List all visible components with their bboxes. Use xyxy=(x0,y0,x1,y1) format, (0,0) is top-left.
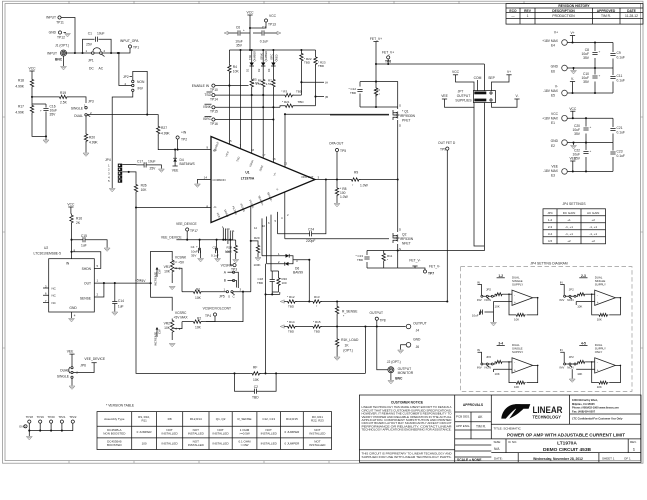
wire OPA OUT xyxy=(315,179,350,181)
svg-text:0 JUMPER: 0 JUMPER xyxy=(284,442,300,446)
svg-text:E2: E2 xyxy=(551,144,555,148)
svg-text:SINGLE: SINGLE xyxy=(71,107,84,111)
wire D6 pin3 to right column xyxy=(308,260,310,302)
svg-text:TP5: TP5 xyxy=(340,149,346,153)
svg-text:4-5: 4-5 xyxy=(581,342,586,346)
vee flag xyxy=(173,165,178,167)
svg-text:Q1, Q2: Q1, Q2 xyxy=(216,417,226,421)
svg-text:AC GAIN: AC GAIN xyxy=(587,211,599,215)
svg-text:C4: C4 xyxy=(191,245,195,249)
svg-text:E6: E6 xyxy=(551,70,555,74)
svg-text:10K: 10K xyxy=(141,188,148,192)
svg-text:TBD: TBD xyxy=(357,258,364,262)
svg-text:GND: GND xyxy=(69,306,77,310)
svg-text:TP2: TP2 xyxy=(181,138,187,142)
svg-text:CW: CW xyxy=(158,269,162,274)
svg-text:BAV99: BAV99 xyxy=(293,271,303,275)
svg-text:TBD: TBD xyxy=(314,330,321,334)
svg-text:TITLE: SCHEMATIC: TITLE: SCHEMATIC xyxy=(494,427,522,431)
svg-text:16: 16 xyxy=(273,157,277,161)
svg-text:-1, +1: -1, +1 xyxy=(589,232,597,236)
svg-text:FET_V+: FET_V+ xyxy=(370,37,382,41)
svg-text:VCSRC: VCSRC xyxy=(175,311,187,315)
Linear Technology logo xyxy=(501,404,562,419)
svg-text:100: 100 xyxy=(142,442,147,446)
svg-text:17: 17 xyxy=(262,153,266,157)
svg-text:C24: C24 xyxy=(308,228,314,232)
svg-text:Wednesday, November 28, 2012: Wednesday, November 28, 2012 xyxy=(533,457,583,461)
svg-text:COMMON: COMMON xyxy=(213,178,226,182)
svg-text:V+: V+ xyxy=(507,70,511,74)
svg-text:TECHNOLOGY APPLICATIONS ENGINE: TECHNOLOGY APPLICATIONS ENGINEERING FOR … xyxy=(362,429,452,432)
approvals box xyxy=(490,395,492,439)
mini circuit 2-3 xyxy=(560,274,622,322)
svg-text:VR1: VR1 xyxy=(164,265,171,269)
svg-text:+: + xyxy=(196,245,198,249)
svg-text:OPA OUT: OPA OUT xyxy=(301,175,314,179)
svg-text:-1, +1: -1, +1 xyxy=(565,225,573,229)
svg-text:* R21: * R21 xyxy=(282,100,290,104)
svg-text:DUAL: DUAL xyxy=(74,114,83,118)
svg-text:S: S xyxy=(228,295,230,299)
net arrow xyxy=(280,300,284,303)
svg-text:(A: (A xyxy=(325,81,328,85)
ground xyxy=(83,153,89,156)
svg-text:35V: 35V xyxy=(236,44,243,48)
ground xyxy=(571,146,577,149)
svg-text:JP4 SETTINGS: JP4 SETTINGS xyxy=(562,202,586,206)
svg-text:V+: V+ xyxy=(570,31,574,35)
svg-text:1uF: 1uF xyxy=(81,244,87,248)
LED D3 xyxy=(272,50,274,63)
svg-text:4.99K: 4.99K xyxy=(15,111,24,115)
net arrow left xyxy=(224,31,228,34)
svg-text:JP4: JP4 xyxy=(547,211,553,215)
svg-text:TP21: TP21 xyxy=(58,415,66,419)
svg-text:BNC: BNC xyxy=(395,376,403,380)
svg-text:10K: 10K xyxy=(253,378,260,382)
svg-text:-18V MAX: -18V MAX xyxy=(543,89,559,93)
svg-text:DC453B-BBOOSTED: DC453B-BBOOSTED xyxy=(107,440,123,447)
svg-text:C17: C17 xyxy=(137,160,143,164)
svg-text:JP3: JP3 xyxy=(88,100,94,104)
svg-text:BNC: BNC xyxy=(55,58,63,62)
svg-text:TP16: TP16 xyxy=(210,122,218,126)
svg-text:U2: U2 xyxy=(44,246,48,250)
svg-text:* R12: * R12 xyxy=(287,295,295,299)
svg-text:1: 1 xyxy=(527,14,529,18)
svg-text:NFET: NFET xyxy=(402,242,411,246)
svg-text:OUT: OUT xyxy=(84,282,91,286)
svg-text:R_SENSE: R_SENSE xyxy=(342,310,358,314)
svg-text:35V: 35V xyxy=(574,132,581,136)
svg-text:ENABLE IN: ENABLE IN xyxy=(192,84,210,88)
net flag (IAMP A xyxy=(301,81,324,83)
svg-text:OUTPUT: OUTPUT xyxy=(413,322,427,326)
svg-text:N/A: N/A xyxy=(494,447,500,451)
svg-text:-1, +1: -1, +1 xyxy=(589,225,597,229)
svg-text:ECO: ECO xyxy=(509,9,517,13)
svg-text:4.99K: 4.99K xyxy=(89,141,98,145)
svg-text:AMBER: AMBER xyxy=(264,51,268,60)
svg-text:C2: C2 xyxy=(254,385,258,389)
net arrow right xyxy=(277,31,281,34)
svg-text:TP9: TP9 xyxy=(440,148,446,152)
svg-text:TBD: TBD xyxy=(318,64,325,68)
svg-text:VEE: VEE xyxy=(551,165,558,169)
svg-text:1uF: 1uF xyxy=(118,305,124,309)
svg-text:TP14: TP14 xyxy=(210,98,218,102)
svg-text:SUPPLY: SUPPLY xyxy=(512,350,523,354)
svg-text:POWER OP AMP WITH ADJUSTABLE C: POWER OP AMP WITH ADJUSTABLE CURRENT LIM… xyxy=(507,433,625,438)
svg-text:TSD: TSD xyxy=(248,55,252,60)
svg-text:VEE_DEVICE: VEE_DEVICE xyxy=(84,357,106,361)
pin names bottom (angled) xyxy=(216,187,280,218)
svg-text:-In: -In xyxy=(213,205,217,209)
svg-text:MONITOR: MONITOR xyxy=(398,371,414,375)
svg-text:C7: C7 xyxy=(262,26,266,30)
svg-text:OF 1: OF 1 xyxy=(624,457,631,461)
svg-text:VCC: VCC xyxy=(247,11,255,15)
svg-text:SHDN: SHDN xyxy=(82,267,92,271)
svg-text:R1K_LOAD: R1K_LOAD xyxy=(341,338,359,342)
svg-text:0 JUMPER: 0 JUMPER xyxy=(284,430,300,434)
svg-text:JP2: JP2 xyxy=(123,75,129,79)
svg-text:DC GAIN: DC GAIN xyxy=(563,211,576,215)
svg-text:D3: D3 xyxy=(267,68,271,72)
svg-text:+: + xyxy=(590,125,592,129)
svg-text:0= +5V: 0= +5V xyxy=(174,261,185,265)
svg-text:TBD: TBD xyxy=(304,61,311,65)
svg-text:INPUT: INPUT xyxy=(46,16,56,20)
svg-text:TP17: TP17 xyxy=(190,229,198,233)
svg-text:Assembly Type: Assembly Type xyxy=(104,417,125,421)
svg-text:REV.: REV. xyxy=(630,440,637,444)
svg-text:AMBER: AMBER xyxy=(253,51,257,60)
svg-text:JP1: JP1 xyxy=(88,59,94,63)
svg-text:* R15: * R15 xyxy=(313,320,321,324)
svg-text:R8: R8 xyxy=(168,417,172,421)
mini circuit 4-5 xyxy=(560,342,622,390)
svg-text:E4: E4 xyxy=(551,44,555,48)
svg-text:D2: D2 xyxy=(257,68,261,72)
svg-text:0.1uF: 0.1uF xyxy=(617,79,625,83)
svg-text:R4: R4 xyxy=(233,65,237,69)
svg-text:TP4: TP4 xyxy=(205,314,211,318)
svg-text:+5V: +5V xyxy=(140,279,147,283)
svg-text:0.1uF: 0.1uF xyxy=(617,154,625,158)
ground xyxy=(571,71,577,74)
svg-text:AC: AC xyxy=(99,67,104,71)
svg-text:TP12: TP12 xyxy=(57,36,65,40)
svg-text:1630 McCarthy Blvd.,: 1630 McCarthy Blvd., xyxy=(572,398,598,402)
svg-text:VCC: VCC xyxy=(67,203,75,207)
net arrow xyxy=(280,325,284,328)
svg-text:4.99K: 4.99K xyxy=(15,85,24,89)
svg-text:35V: 35V xyxy=(574,157,581,161)
svg-text:DATE:: DATE: xyxy=(494,457,503,461)
wire JP4 pins xyxy=(122,165,136,184)
svg-text:JP5: JP5 xyxy=(219,295,225,299)
svg-text:INV: INV xyxy=(138,87,144,91)
svg-text:TP20: TP20 xyxy=(48,415,56,419)
svg-text:R19: R19 xyxy=(60,91,66,95)
ground xyxy=(65,34,71,37)
svg-text:100K: 100K xyxy=(225,250,232,254)
svg-text:TP7: TP7 xyxy=(428,272,434,276)
svg-text:LTC Confidential-For Customer: LTC Confidential-For Customer Use Only xyxy=(572,417,623,421)
svg-text:1: 1 xyxy=(633,448,635,452)
LED D2 xyxy=(262,50,264,63)
svg-text:1 OHM>=0.5W: 1 OHM>=0.5W xyxy=(239,428,250,435)
svg-text:14: 14 xyxy=(204,176,208,180)
svg-text:J2 (OPT.): J2 (OPT.) xyxy=(387,360,401,364)
svg-text:SUPPLIED FOR USE WITH LINEAR T: SUPPLIED FOR USE WITH LINEAR TECHNOLOGY … xyxy=(362,456,452,459)
svg-text:JP4: JP4 xyxy=(105,158,111,162)
svg-text:10uF: 10uF xyxy=(148,160,156,164)
svg-text:0.1uF: 0.1uF xyxy=(260,40,268,44)
svg-text:11-28-12: 11-28-12 xyxy=(625,14,638,18)
svg-text:DC: DC xyxy=(89,67,94,71)
pin names inside (angled) xyxy=(212,141,277,177)
ground xyxy=(61,67,67,70)
svg-text:1.5K: 1.5K xyxy=(255,82,261,86)
svg-text:C6: C6 xyxy=(236,26,240,30)
wire NON bracket to R27 xyxy=(112,71,147,188)
net flag (IAMP B xyxy=(316,96,325,98)
wire FET_V+ rail to JP7 xyxy=(376,63,484,65)
svg-text:10: 10 xyxy=(262,224,266,228)
svg-text:R_SENSE: R_SENSE xyxy=(237,417,251,421)
version table xyxy=(97,404,332,450)
svg-text:VEE_DEVICE: VEE_DEVICE xyxy=(176,222,198,226)
svg-text:Fax: (408)434-0507: Fax: (408)434-0507 xyxy=(572,409,596,413)
svg-text:1-2: 1-2 xyxy=(498,274,503,278)
svg-text:ISINK: ISINK xyxy=(259,53,263,60)
svg-text:100: 100 xyxy=(282,281,287,285)
svg-text:TP1: TP1 xyxy=(133,46,139,50)
svg-text:R12,R14: R12,R14 xyxy=(190,417,202,421)
svg-text:R20: R20 xyxy=(89,136,95,140)
svg-text:APPROVED: APPROVED xyxy=(597,9,616,13)
svg-text:100K: 100K xyxy=(254,263,261,267)
svg-text:ONLY: ONLY xyxy=(595,350,603,354)
svg-text:SENSE: SENSE xyxy=(80,297,92,301)
svg-text:* VERSION TABLE: * VERSION TABLE xyxy=(106,404,135,408)
svg-text:10K: 10K xyxy=(164,269,171,273)
svg-text:20: 20 xyxy=(227,227,231,231)
test points TP18-TP22 xyxy=(19,415,77,440)
svg-text:LTC3010EMS8E-5: LTC3010EMS8E-5 xyxy=(34,252,62,256)
svg-text:(OPT.): (OPT.) xyxy=(343,349,353,353)
svg-text:OUTPUT: OUTPUT xyxy=(370,311,384,315)
svg-text:10K: 10K xyxy=(195,296,202,300)
svg-text:V+: V+ xyxy=(554,31,558,35)
svg-text:+: + xyxy=(590,149,592,153)
svg-text:R13: R13 xyxy=(314,295,320,299)
svg-text:10K: 10K xyxy=(195,326,202,330)
svg-text:TIM R.: TIM R. xyxy=(601,14,611,18)
svg-text:TP11: TP11 xyxy=(56,21,64,25)
svg-text:2.5K: 2.5K xyxy=(60,101,68,105)
svg-text:IRF9530N: IRF9530N xyxy=(400,114,416,118)
svg-text:JP6: JP6 xyxy=(80,364,86,368)
svg-text:11: 11 xyxy=(232,229,235,233)
wire xyxy=(567,36,613,69)
svg-text:SCALE = NONE: SCALE = NONE xyxy=(457,458,482,462)
svg-text:1-2: 1-2 xyxy=(548,218,553,222)
svg-text:IRF530N: IRF530N xyxy=(400,237,414,241)
svg-text:TIM R.: TIM R. xyxy=(476,425,486,429)
svg-text:SUPPLY: SUPPLY xyxy=(512,283,523,287)
svg-text:VEE_DEVICE: VEE_DEVICE xyxy=(161,235,183,239)
svg-text:TP15: TP15 xyxy=(210,110,218,114)
svg-text:0.1uF: 0.1uF xyxy=(617,56,625,60)
svg-text:LT1970A: LT1970A xyxy=(241,177,255,181)
svg-text:SUPPLY: SUPPLY xyxy=(595,283,606,287)
ground xyxy=(69,386,75,389)
svg-text:10K: 10K xyxy=(164,326,171,330)
ground xyxy=(26,437,32,440)
svg-text:15: 15 xyxy=(229,139,233,143)
svg-text:U1: U1 xyxy=(245,171,249,175)
svg-text:SUPPLIES: SUPPLIES xyxy=(455,99,472,103)
svg-text:2-3: 2-3 xyxy=(581,274,586,278)
svg-text:1.5K: 1.5K xyxy=(266,82,272,86)
LED D1 xyxy=(251,50,253,63)
svg-text:+2: +2 xyxy=(591,239,595,243)
svg-text:APPROVALS: APPROVALS xyxy=(463,403,484,407)
svg-text:25V: 25V xyxy=(150,167,157,171)
svg-text:12: 12 xyxy=(254,226,258,230)
svg-text:(B: (B xyxy=(325,95,328,99)
svg-text:+18V MAX: +18V MAX xyxy=(542,39,559,43)
svg-text:J4: J4 xyxy=(416,329,420,333)
svg-text:R17: R17 xyxy=(18,105,24,109)
svg-text:Phone: (408)432-1900 www.lin: Phone: (408)432-1900 www.linear.com xyxy=(572,406,619,410)
svg-text:TBD: TBD xyxy=(257,281,264,285)
svg-text:-18V MAX: -18V MAX xyxy=(543,169,559,173)
svg-text:TBD: TBD xyxy=(288,305,295,309)
wire Q2 source down to C13/R11 xyxy=(367,244,398,268)
svg-text:SINGLE: SINGLE xyxy=(57,374,70,378)
svg-text:C9: C9 xyxy=(617,51,621,55)
svg-text:* R14: * R14 xyxy=(287,320,295,324)
svg-text:SEP: SEP xyxy=(488,76,495,80)
svg-text:VCC: VCC xyxy=(269,14,277,18)
svg-text:35V: 35V xyxy=(583,80,590,84)
svg-text:13: 13 xyxy=(284,162,288,166)
svg-text:TECHNOLOGY: TECHNOLOGY xyxy=(533,414,562,419)
svg-text:10uF: 10uF xyxy=(97,32,105,36)
svg-text:4-5: 4-5 xyxy=(548,239,553,243)
svg-text:JP7: JP7 xyxy=(458,90,464,94)
svg-text:E5: E5 xyxy=(551,94,555,98)
svg-text:E1: E1 xyxy=(551,121,555,125)
svg-text:+2: +2 xyxy=(567,239,571,243)
svg-text:TP19: TP19 xyxy=(37,415,45,419)
svg-text:TBD: TBD xyxy=(296,90,303,94)
svg-text:IC NO.: IC NO. xyxy=(508,440,517,444)
svg-text:R18: R18 xyxy=(18,79,24,83)
svg-text:VEE: VEE xyxy=(172,169,179,173)
svg-text:R27: R27 xyxy=(161,126,167,130)
svg-text:10K: 10K xyxy=(233,70,240,74)
svg-text:OUT FET D: OUT FET D xyxy=(438,141,456,145)
svg-text:R2: R2 xyxy=(197,316,201,320)
svg-text:TP10: TP10 xyxy=(210,88,218,92)
svg-text:TP18: TP18 xyxy=(26,415,34,419)
svg-text:RF: RF xyxy=(253,365,257,369)
power jack bank 1: V+ / GND / V- xyxy=(542,31,625,98)
svg-text:+In: +In xyxy=(213,148,217,152)
svg-text:R29: R29 xyxy=(254,236,260,240)
svg-text:+5V MAX: +5V MAX xyxy=(174,315,189,319)
svg-text:R13,R15: R13,R15 xyxy=(286,417,298,421)
svg-text:+: + xyxy=(599,74,601,78)
svg-text:VCSRC/VOLCONT: VCSRC/VOLCONT xyxy=(203,307,231,311)
dashed enclosure xyxy=(461,267,633,392)
resistor R_SENSE xyxy=(335,305,338,315)
svg-text:VCC: VCC xyxy=(569,107,577,111)
svg-text:ISRC: ISRC xyxy=(270,54,274,60)
svg-text:TP8: TP8 xyxy=(380,319,386,323)
pin stubs top: VCC pin 7 and V+ pin 13 xyxy=(241,50,286,167)
wire inverting feedback column xyxy=(136,208,235,374)
svg-text:INPUT_OPA: INPUT_OPA xyxy=(120,39,139,43)
svg-text:C1: C1 xyxy=(88,32,92,36)
wire TP11 to input node xyxy=(61,18,75,54)
svg-text:REV: REV xyxy=(524,9,532,13)
svg-text:* R3: * R3 xyxy=(281,90,287,94)
svg-text:LT1970A: LT1970A xyxy=(557,441,577,447)
svg-text:+18V MAX: +18V MAX xyxy=(542,117,559,121)
vcc rail node xyxy=(229,49,315,51)
svg-text:TBD: TBD xyxy=(298,100,305,104)
svg-text:INSTALLED: INSTALLED xyxy=(162,442,179,446)
svg-text:VR2: VR2 xyxy=(164,321,171,325)
ground xyxy=(334,204,340,207)
svg-text:Q2: Q2 xyxy=(402,233,407,237)
svg-text:OUTPUT: OUTPUT xyxy=(457,94,471,98)
svg-text:GND: GND xyxy=(551,65,559,69)
svg-text:TBD: TBD xyxy=(252,396,259,400)
ground xyxy=(194,184,200,187)
svg-text:+1: +1 xyxy=(567,218,571,222)
svg-text:FET_V+: FET_V+ xyxy=(382,51,394,55)
svg-text:REVISION HISTORY: REVISION HISTORY xyxy=(558,4,590,8)
resistor R27 4.99K xyxy=(147,115,158,125)
svg-text:VEE: VEE xyxy=(67,349,74,353)
svg-text:VCC: VCC xyxy=(29,67,37,71)
svg-text:1.0W: 1.0W xyxy=(340,195,349,199)
svg-text:R3, R21R22, R23: R3, R21R22, R23 xyxy=(311,415,324,422)
svg-text:CUSTOMER NOTICE: CUSTOMER NOTICE xyxy=(391,401,424,405)
svg-text:TP22: TP22 xyxy=(69,415,77,419)
svg-text:PCB DES.: PCB DES. xyxy=(456,415,470,419)
svg-text:R9: R9 xyxy=(354,171,358,175)
svg-text:TBD: TBD xyxy=(288,330,295,334)
svg-text:S: S xyxy=(399,104,401,108)
power jack bank 2: VCC / GND / VEE xyxy=(542,107,625,178)
svg-text:3-4: 3-4 xyxy=(498,342,503,346)
title block outline xyxy=(359,395,641,462)
svg-text:C23: C23 xyxy=(617,150,623,154)
svg-text:GND: GND xyxy=(413,338,421,342)
svg-text:ISRC: ISRC xyxy=(203,117,211,121)
svg-text:10uF: 10uF xyxy=(472,314,479,318)
pin numbers top xyxy=(229,139,288,166)
